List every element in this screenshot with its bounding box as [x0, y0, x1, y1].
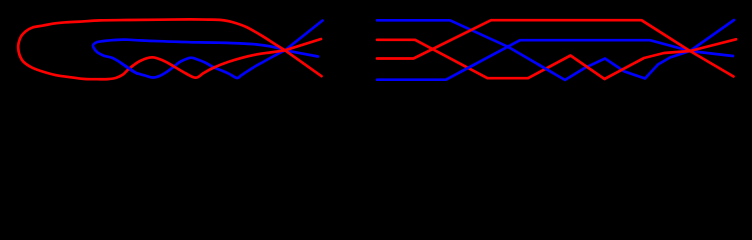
right blue strand 2: [377, 40, 690, 79]
blue over red patch at right crossing x469: [460, 64, 476, 72]
right red ray down: [690, 51, 734, 77]
right red strand 1: [377, 40, 690, 79]
left blue ray up: [285, 21, 323, 51]
left blue ray down: [285, 50, 318, 56]
blue over red patch at left wave crossing 1: [121, 63, 137, 74]
right red ray up: [690, 39, 736, 51]
right blue ray down: [690, 51, 733, 56]
right blue strand 1: [377, 20, 690, 80]
left red ray up: [285, 39, 321, 50]
left red curve: [18, 19, 285, 79]
right red strand 2: [377, 20, 690, 58]
left red ray down: [285, 50, 322, 76]
blue over red patch at right crossing x545: [538, 64, 553, 73]
left blue curve: [93, 40, 285, 78]
right blue ray up: [690, 20, 734, 51]
